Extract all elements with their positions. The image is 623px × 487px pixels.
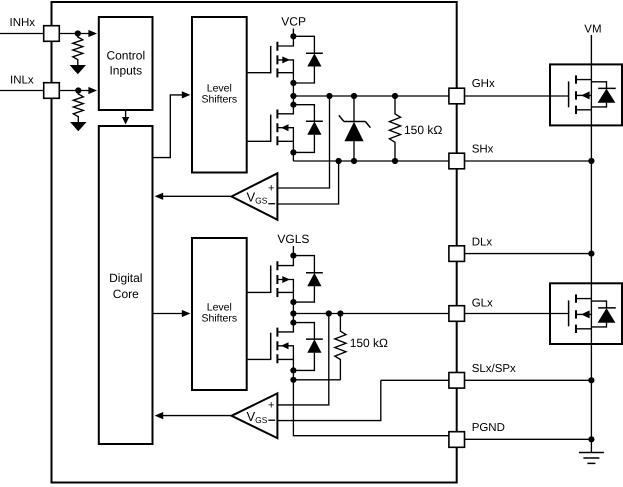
node resistor R2 top	[337, 310, 343, 316]
node GHx at driver chain	[290, 93, 296, 99]
arrow into Control Inputs (INLx)	[88, 87, 97, 94]
zener diode Z1 GHx-SHx	[339, 96, 371, 161]
wire SHx to phase node	[465, 160, 592, 162]
svg-text:Digital: Digital	[109, 271, 142, 285]
wire VCP stub	[292, 29, 294, 37]
block Digital Core	[99, 126, 153, 444]
wire GHx to external FET gate	[465, 95, 569, 97]
external FET Q2 enclosure	[550, 283, 622, 344]
svg-text:SLx/SPx: SLx/SPx	[472, 363, 516, 375]
node M4 drain junction	[290, 320, 296, 326]
external FET Q1 enclosure	[550, 64, 622, 125]
wire VM / phase rail vertical	[590, 35, 592, 453]
resistor R1 150k GHx-SHx	[389, 96, 400, 161]
ground arrow (INHx pulldown)	[70, 65, 86, 74]
node INHx pulldown tap	[75, 30, 81, 36]
transistor Q1 (external high-side NMOS)	[569, 75, 592, 114]
resistor INHx pulldown	[73, 34, 83, 66]
wire M3 source to GLx	[292, 302, 294, 323]
diode DQ1 (Q1 body diode)	[591, 82, 615, 107]
svg-text:VCP: VCP	[281, 15, 306, 29]
wire SLx to low FET source	[465, 379, 592, 381]
arrow into Digital Core (comparator1)	[155, 193, 164, 200]
node PGND junction	[588, 436, 594, 442]
transistor M3 (low-side pull-up PMOS)	[271, 256, 294, 303]
node resistor R1 bottom	[392, 158, 398, 164]
node GLx at driver chain	[290, 310, 296, 316]
wire gate M2 from Level Shifters 1	[247, 140, 271, 142]
wire Control Inputs to Digital Core	[125, 110, 127, 117]
node DLx junction	[588, 251, 594, 257]
wire comparator2 output to Digital Core	[156, 415, 231, 417]
svg-text:INLx: INLx	[10, 75, 34, 87]
node M2 drain junction	[290, 102, 296, 108]
wire gate M1 from Level Shifters 1	[247, 72, 271, 74]
wire VGLS stub	[292, 246, 294, 256]
svg-text:GLx: GLx	[472, 298, 493, 310]
pin PGND	[449, 432, 465, 448]
op-amp U2 (VGS comparator low-side)	[232, 393, 278, 438]
node GHx comparator tap	[326, 93, 332, 99]
pin SLx/SPx	[449, 373, 465, 389]
device outline box	[52, 2, 457, 483]
wire Digital Core to Level Shifters 2	[153, 313, 189, 315]
pin DLx	[449, 246, 465, 262]
node M1 source junction	[290, 80, 296, 86]
diode D3 (M3 body diode)	[293, 256, 322, 303]
svg-text:SHx: SHx	[472, 143, 494, 155]
node source rail / resistor branch	[290, 377, 296, 383]
pin INLx	[44, 83, 60, 99]
pin SHx	[449, 153, 465, 169]
diode DQ2 (Q2 body diode)	[591, 301, 615, 327]
node resistor R1 top	[392, 93, 398, 99]
wire comparator1 + input from GHx	[277, 96, 329, 188]
arrow into Digital Core (comparator2)	[155, 412, 164, 419]
resistor INLx pulldown	[73, 91, 83, 123]
node M2 source junction	[290, 149, 296, 155]
transistor M1 (high-side pull-up PMOS)	[271, 36, 294, 83]
pin GHx	[449, 88, 465, 104]
resistor R2 150k GLx-source	[335, 314, 346, 380]
ground arrow (INLx pulldown)	[70, 122, 86, 131]
svg-text:PGND: PGND	[472, 422, 505, 434]
transistor M2 (high-side pull-down NMOS)	[271, 105, 294, 153]
transistor M4 (low-side pull-down NMOS)	[271, 323, 294, 371]
block Control Inputs	[99, 17, 153, 110]
svg-text:GHx: GHx	[472, 78, 495, 90]
svg-text:VM: VM	[584, 24, 601, 36]
op-amp U1 (VGS comparator high-side)	[232, 173, 278, 220]
wire comparator1 output to Digital Core	[156, 195, 231, 197]
svg-text:150 kΩ: 150 kΩ	[404, 123, 442, 137]
wire Digital Core to Level Shifters 1	[153, 95, 189, 158]
node INLx pulldown tap	[75, 87, 81, 93]
node M4 source junction	[290, 367, 296, 373]
transistor Q2 (external low-side NMOS)	[569, 294, 592, 333]
svg-text:Shifters: Shifters	[201, 93, 237, 105]
pin GLx	[449, 306, 465, 322]
wire INLx input	[0, 90, 89, 92]
node VCP	[290, 33, 296, 39]
diode D2 (M2 body diode)	[293, 105, 322, 153]
diode D4 (M4 body diode)	[293, 323, 322, 371]
pin INHx	[44, 26, 60, 42]
wire gate M3 from Level Shifters 2	[247, 291, 271, 293]
svg-text:+: +	[268, 399, 274, 411]
wire DLx to phase node	[465, 253, 592, 255]
node SLx junction	[588, 377, 594, 383]
svg-text:VGLS: VGLS	[277, 232, 309, 246]
wire resistor R2 bottom branch	[293, 379, 340, 381]
arrow into Digital Core	[122, 117, 129, 125]
svg-text:Shifters: Shifters	[201, 312, 237, 324]
wire M2 source to SHx line	[292, 152, 294, 161]
arrow into Level Shifters 2	[182, 310, 191, 317]
wire comparator2 - input to SLx	[277, 380, 380, 420]
node VGLS	[290, 253, 296, 259]
wire SHx net	[293, 160, 449, 162]
node SHx phase junction	[588, 158, 594, 164]
svg-text:Inputs: Inputs	[109, 64, 142, 78]
wire SLx/SPx net	[381, 379, 449, 381]
wire M1 source to GHx	[292, 83, 294, 105]
svg-text:DLx: DLx	[472, 237, 493, 249]
wire GLx to external FET gate	[465, 313, 569, 315]
node zener top	[351, 93, 357, 99]
wire GHx net	[293, 95, 449, 97]
wire gate M4 from Level Shifters 2	[247, 358, 271, 360]
arrow into Level Shifters 1	[182, 91, 191, 98]
wire PGND to ground	[465, 438, 592, 440]
svg-text:150 kΩ: 150 kΩ	[350, 336, 388, 350]
wire GLx net	[293, 313, 449, 315]
svg-text:+: +	[268, 183, 274, 195]
svg-text:INHx: INHx	[10, 17, 36, 29]
wire comparator1 - input from SHx	[277, 161, 338, 204]
wire comparator2 + input from GLx	[277, 314, 328, 405]
svg-text:Control: Control	[106, 49, 145, 63]
svg-text:Core: Core	[113, 287, 139, 301]
wire INHx input	[0, 33, 89, 35]
block Level Shifters 2	[192, 238, 247, 390]
node SHx comparator tap	[336, 158, 342, 164]
ground symbol PGND	[579, 453, 604, 464]
arrow into Control Inputs (INHx)	[88, 30, 97, 37]
node GLx comparator tap	[326, 310, 332, 316]
wire M4 source to PGND line	[293, 370, 449, 435]
diode D1 (M1 body diode)	[293, 36, 322, 83]
block Level Shifters 1	[192, 17, 247, 173]
node M3 source junction	[290, 299, 296, 305]
node zener bottom	[351, 158, 357, 164]
